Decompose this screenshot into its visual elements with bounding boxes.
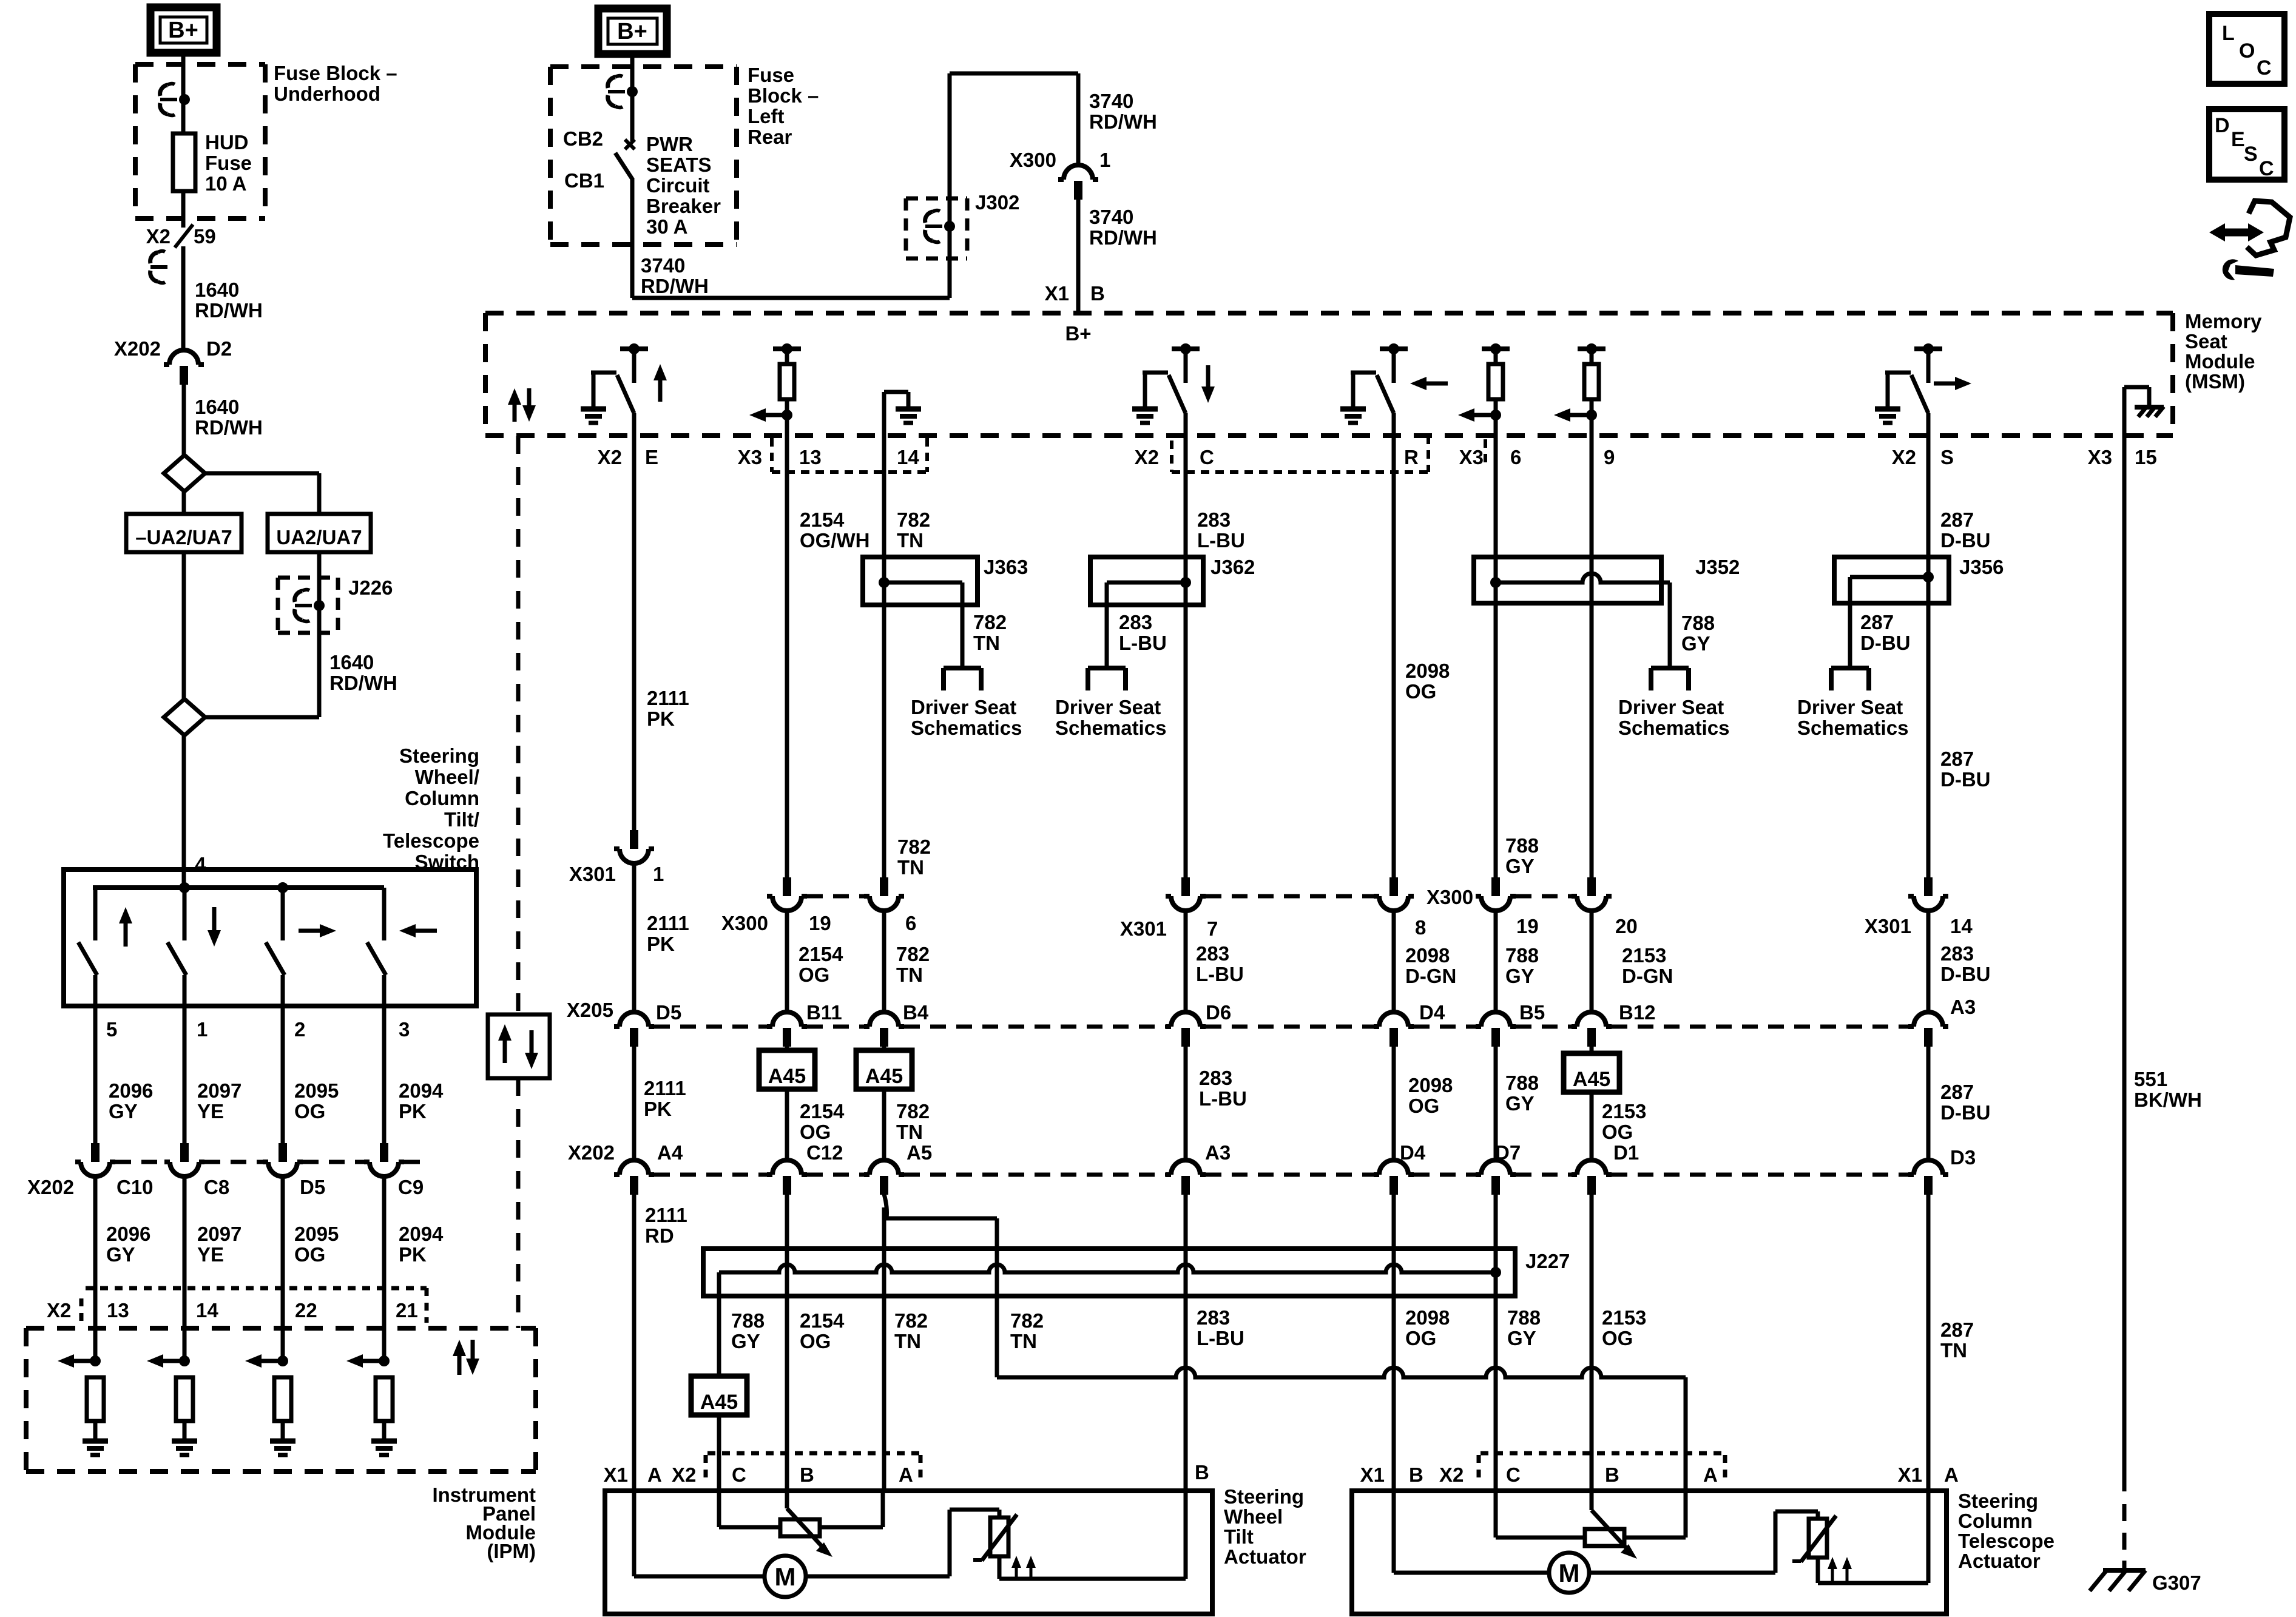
- svg-text:PK: PK: [399, 1243, 427, 1266]
- svg-text:YE: YE: [197, 1100, 224, 1122]
- wire 287 D-BU (pin S down): [1928, 436, 1990, 557]
- wire 2095 OG lower: [283, 1176, 339, 1361]
- wire 2098 OG (to X202): [1394, 1046, 1453, 1160]
- svg-text:TN: TN: [896, 964, 923, 986]
- svg-text:788: 788: [1505, 944, 1539, 967]
- svg-text:GY: GY: [106, 1243, 135, 1266]
- svg-text:(IPM): (IPM): [487, 1540, 536, 1562]
- svg-text:TN: TN: [1010, 1330, 1037, 1352]
- wire 2111 PK (X205 to X202): [634, 1046, 686, 1160]
- svg-text:PK: PK: [644, 1098, 672, 1120]
- svg-text:D-BU: D-BU: [1940, 768, 1990, 791]
- svg-text:A45: A45: [768, 1065, 806, 1088]
- svg-text:6: 6: [1510, 446, 1521, 468]
- connector X301 pin 14: [1865, 877, 1973, 937]
- wire 2154 OG (to actuator): [787, 1194, 845, 1491]
- fuse block underhood box: [135, 62, 397, 218]
- svg-text:X2: X2: [146, 225, 171, 248]
- wire 287 TN (to actuator): [1928, 1194, 1974, 1491]
- power symbol B+ (middle): [598, 8, 667, 54]
- svg-text:X300: X300: [1010, 149, 1056, 171]
- svg-text:D2: D2: [206, 337, 232, 360]
- svg-text:X1: X1: [1898, 1463, 1922, 1486]
- switch bus bar: [93, 882, 384, 893]
- svg-text:X2: X2: [47, 1299, 71, 1322]
- svg-text:782: 782: [897, 508, 930, 531]
- svg-text:2098: 2098: [1405, 944, 1450, 967]
- splice J352: [1474, 556, 1740, 668]
- switch left contact: [367, 888, 437, 1006]
- svg-text:X3: X3: [1459, 446, 1484, 468]
- svg-text:OG: OG: [294, 1243, 325, 1266]
- wire 788 GY (to X202): [1496, 1046, 1539, 1160]
- splice J227 internal bus: [719, 1264, 1496, 1296]
- fuse block left rear box: [550, 64, 819, 245]
- option box -UA2/UA7: [126, 514, 241, 552]
- connector X301 pin 7: [1120, 877, 1218, 940]
- svg-text:D5: D5: [300, 1176, 325, 1198]
- svg-text:2154: 2154: [800, 508, 845, 531]
- svg-text:PK: PK: [399, 1100, 427, 1122]
- svg-text:Circuit: Circuit: [646, 174, 710, 197]
- IPM ground 1: [83, 1441, 108, 1455]
- inline connector A45 (788 GY): [691, 1376, 747, 1415]
- tilt actuator pin labels: [604, 1453, 1209, 1486]
- svg-text:Block –: Block –: [748, 84, 819, 107]
- svg-text:283: 283: [1119, 611, 1152, 633]
- connector X300 pin 1: [1010, 149, 1110, 200]
- svg-text:D-BU: D-BU: [1940, 963, 1990, 985]
- MSM switch down (pin C): [1132, 343, 1215, 436]
- connector X300 pin 6: [864, 877, 916, 934]
- MSM updown arrows: [508, 388, 536, 422]
- svg-text:Breaker: Breaker: [646, 195, 721, 217]
- svg-text:OG: OG: [800, 1121, 831, 1143]
- svg-text:19: 19: [1516, 915, 1539, 937]
- svg-text:J302: J302: [975, 191, 1019, 214]
- svg-text:2153: 2153: [1622, 944, 1666, 967]
- svg-text:OG: OG: [1408, 1095, 1439, 1117]
- svg-text:Schematics: Schematics: [1797, 717, 1908, 739]
- svg-text:X205: X205: [567, 999, 613, 1021]
- svg-text:D5: D5: [656, 1001, 681, 1024]
- svg-text:CB1: CB1: [564, 169, 604, 192]
- tilt motor M: [634, 1491, 806, 1597]
- connector X2 row (IPM): [47, 1288, 427, 1326]
- svg-text:Tilt: Tilt: [1224, 1525, 1254, 1548]
- connector X301 pin 1: [569, 830, 664, 885]
- svg-text:2098: 2098: [1408, 1074, 1453, 1096]
- off-page fork J363 (782 TN): [944, 611, 1007, 690]
- svg-text:283: 283: [1940, 942, 1974, 965]
- wire to switch pin 4: [184, 735, 206, 888]
- svg-text:A: A: [1944, 1463, 1959, 1486]
- wire 2097 YE lower: [184, 1176, 241, 1361]
- svg-text:OG: OG: [799, 964, 829, 986]
- wire 2153 D-GN: [1592, 911, 1673, 1012]
- svg-text:A: A: [647, 1463, 662, 1486]
- svg-text:Wheel/: Wheel/: [415, 766, 479, 788]
- svg-text:L-BU: L-BU: [1199, 1087, 1247, 1110]
- dashed data wire to IPM: [516, 436, 521, 1328]
- MSM resistor (pin 9): [1554, 343, 1606, 436]
- svg-text:Memory: Memory: [2185, 310, 2262, 333]
- svg-text:1640: 1640: [195, 279, 239, 301]
- svg-text:C12: C12: [806, 1141, 843, 1164]
- svg-text:J352: J352: [1695, 556, 1740, 578]
- off-page fork J362 (283 L-BU): [1088, 611, 1167, 690]
- driver seat schematics label 1: [911, 696, 1022, 739]
- wire 3740 RD/WH to X300: [1078, 73, 1157, 165]
- svg-text:788: 788: [1507, 1306, 1541, 1329]
- svg-text:A3: A3: [1205, 1141, 1231, 1164]
- svg-text:BK/WH: BK/WH: [2134, 1089, 2202, 1111]
- instrument panel module box: [26, 1328, 536, 1562]
- connector row X300 dashes: [807, 894, 1572, 899]
- svg-text:782: 782: [894, 1309, 928, 1332]
- power symbol B+ (left): [150, 7, 217, 53]
- wire 2094 PK lower: [384, 1176, 444, 1361]
- MSM resistor (pin 6): [1458, 343, 1510, 436]
- splice J226: [278, 576, 393, 633]
- MSM pin X3 15: [2088, 446, 2157, 468]
- svg-text:1: 1: [197, 1018, 208, 1041]
- svg-text:S: S: [2244, 143, 2258, 166]
- svg-text:X1: X1: [604, 1463, 628, 1486]
- wire 287 D-BU (to X301): [1928, 603, 1990, 878]
- svg-text:GY: GY: [1681, 632, 1710, 655]
- svg-text:D: D: [2215, 114, 2230, 137]
- svg-text:X1: X1: [1045, 282, 1069, 305]
- svg-text:D-GN: D-GN: [1622, 965, 1673, 987]
- svg-text:2154: 2154: [800, 1100, 845, 1122]
- svg-text:782: 782: [897, 836, 931, 858]
- svg-text:OG: OG: [1405, 680, 1436, 703]
- icon LOC box: [2209, 14, 2284, 84]
- svg-text:2095: 2095: [294, 1079, 339, 1102]
- driver seat schematics label 2: [1055, 696, 1166, 739]
- svg-text:OG: OG: [1602, 1327, 1633, 1349]
- svg-text:13: 13: [799, 446, 822, 468]
- svg-text:Left: Left: [748, 105, 785, 127]
- svg-text:7: 7: [1207, 917, 1218, 940]
- wire 1640 RD/WH seg3: [329, 651, 397, 694]
- svg-text:4: 4: [195, 853, 206, 876]
- wire 2153 OG (pin 9 down): [1590, 436, 1594, 878]
- svg-text:5: 5: [106, 1018, 117, 1041]
- svg-text:3740: 3740: [1089, 206, 1133, 228]
- svg-text:GY: GY: [1505, 855, 1535, 877]
- wire 2153 OG (to actuator): [1592, 1194, 1646, 1491]
- icon DESC box: [2209, 109, 2284, 180]
- svg-text:J227: J227: [1525, 1250, 1570, 1272]
- svg-text:A: A: [899, 1463, 913, 1486]
- wire 283 D-BU label: [1928, 911, 1990, 1012]
- svg-text:GY: GY: [731, 1330, 760, 1352]
- svg-text:HUD: HUD: [205, 131, 249, 154]
- svg-text:14: 14: [1950, 915, 1973, 937]
- svg-text:RD/WH: RD/WH: [195, 299, 263, 322]
- svg-text:Fuse Block –: Fuse Block –: [274, 62, 397, 84]
- svg-text:YE: YE: [197, 1243, 224, 1266]
- inline connector A45 (wire 14): [856, 1046, 912, 1089]
- wire 283 L-BU (to X202): [1186, 1046, 1247, 1160]
- svg-text:G307: G307: [2152, 1571, 2201, 1594]
- svg-text:14: 14: [196, 1299, 218, 1322]
- svg-text:D-BU: D-BU: [1940, 529, 1990, 552]
- svg-text:283: 283: [1196, 942, 1229, 965]
- wire 283 L-BU (to X205): [1184, 911, 1188, 1012]
- svg-text:B: B: [1409, 1463, 1423, 1486]
- wire 788 GY (J227 branch): [719, 1296, 765, 1376]
- connector X2 pin 59: [146, 224, 216, 283]
- driver seat schematics label 3: [1618, 696, 1729, 739]
- svg-text:3: 3: [399, 1018, 410, 1041]
- wire UA2 down: [205, 552, 319, 717]
- svg-text:C10: C10: [116, 1176, 154, 1198]
- svg-text:287: 287: [1940, 748, 1974, 770]
- svg-text:788: 788: [731, 1309, 765, 1332]
- svg-text:2098: 2098: [1405, 660, 1450, 682]
- svg-text:Steering: Steering: [1958, 1490, 2038, 1512]
- svg-text:RD/WH: RD/WH: [329, 672, 397, 694]
- wire 2094 PK upper: [384, 1006, 444, 1143]
- wire 2097 YE upper: [184, 1006, 241, 1143]
- wire 2111 PK (X301 to X205): [634, 863, 689, 1012]
- MSM pin X2 C: [1135, 446, 1214, 468]
- svg-text:X1: X1: [1360, 1463, 1385, 1486]
- svg-text:L-BU: L-BU: [1197, 529, 1245, 552]
- svg-text:GY: GY: [109, 1100, 138, 1122]
- svg-text:Tilt/: Tilt/: [444, 808, 479, 831]
- tilt position pot: [719, 1491, 883, 1536]
- wire 283 L-BU (to actuator): [1186, 1194, 1244, 1491]
- switch right contact: [266, 888, 336, 1006]
- svg-text:TN: TN: [1940, 1339, 1967, 1362]
- svg-text:Fuse: Fuse: [205, 152, 252, 174]
- svg-text:A4: A4: [657, 1141, 683, 1164]
- svg-text:782: 782: [1010, 1309, 1044, 1332]
- wire 2095 OG upper: [283, 1006, 339, 1143]
- svg-text:TN: TN: [896, 1121, 923, 1143]
- svg-text:283: 283: [1197, 508, 1231, 531]
- MSM switch right (pin S): [1875, 343, 1971, 436]
- IPM ground 4: [371, 1441, 397, 1455]
- svg-text:Steering: Steering: [1224, 1485, 1304, 1508]
- connector drop box pins C-R: [1172, 436, 1485, 472]
- svg-text:X2: X2: [672, 1463, 696, 1486]
- svg-text:OG: OG: [294, 1100, 325, 1122]
- splice diamond upper: [164, 455, 205, 491]
- svg-text:C: C: [1200, 446, 1214, 468]
- connector row X205: [567, 996, 1976, 1047]
- MSM switch left (pin R): [1340, 343, 1448, 436]
- wire 782 TN (J363 to X300): [884, 605, 931, 879]
- svg-text:B+: B+: [168, 18, 198, 43]
- svg-text:A45: A45: [700, 1391, 738, 1414]
- connector terminal in fuse block: [160, 84, 190, 116]
- svg-text:2094: 2094: [399, 1079, 444, 1102]
- wire 782 TN (to X205): [884, 911, 930, 1012]
- svg-text:X2: X2: [1135, 446, 1159, 468]
- svg-text:1: 1: [653, 863, 664, 885]
- MSM pin R: [1404, 446, 1419, 468]
- svg-text:L-BU: L-BU: [1196, 963, 1244, 985]
- connector X202 row (switch): [27, 1143, 425, 1198]
- MSM pin X2 S: [1892, 446, 1954, 468]
- svg-text:6: 6: [905, 912, 916, 934]
- svg-text:M: M: [775, 1562, 796, 1591]
- switch down contact: [167, 888, 221, 1006]
- steering column telescope actuator box: [1352, 1490, 2055, 1614]
- svg-text:287: 287: [1940, 508, 1974, 531]
- IPM ground 3: [270, 1441, 295, 1455]
- wire 2096 GY upper: [95, 1006, 153, 1143]
- svg-text:Seat: Seat: [2185, 330, 2227, 353]
- svg-text:Telescope: Telescope: [383, 829, 479, 852]
- svg-text:(MSM): (MSM): [2185, 370, 2245, 393]
- wire 2096 GY lower: [95, 1176, 150, 1361]
- svg-text:C9: C9: [398, 1176, 424, 1198]
- connector X300 pin 8: [1374, 877, 1473, 939]
- wire 788 GY (to X205): [1496, 911, 1539, 1012]
- wire 2098 D-GN: [1394, 911, 1456, 1012]
- svg-text:782: 782: [896, 943, 930, 965]
- svg-text:R: R: [1404, 446, 1419, 468]
- svg-text:J356: J356: [1959, 556, 2004, 578]
- svg-text:PWR: PWR: [646, 133, 693, 155]
- svg-text:X202: X202: [568, 1141, 615, 1164]
- svg-text:782: 782: [896, 1100, 930, 1122]
- splice J362: [1090, 556, 1255, 668]
- svg-text:X3: X3: [738, 446, 762, 468]
- telescope thermistor circuit: [1589, 1491, 1928, 1583]
- svg-text:A3: A3: [1950, 996, 1976, 1018]
- MSM pin X3 6: [1459, 446, 1522, 468]
- svg-text:20: 20: [1615, 915, 1638, 937]
- wire 788 GY to tilt actuator: [717, 1415, 721, 1491]
- svg-text:C: C: [2257, 56, 2272, 79]
- svg-text:Steering: Steering: [399, 744, 479, 767]
- switch up contact: [78, 888, 132, 1006]
- svg-text:RD/WH: RD/WH: [1089, 226, 1157, 249]
- svg-text:D7: D7: [1495, 1141, 1521, 1164]
- svg-text:Column: Column: [405, 787, 479, 809]
- tilt thermistor circuit: [806, 1491, 1186, 1580]
- wire 2098 OG (pin R down): [1394, 436, 1450, 878]
- svg-text:X301: X301: [569, 863, 616, 885]
- svg-text:Wheel: Wheel: [1224, 1505, 1283, 1528]
- off-page fork J352 (788 GY): [1651, 612, 1715, 690]
- MSM pin X2 E: [598, 446, 658, 468]
- svg-text:A45: A45: [1573, 1068, 1610, 1091]
- svg-text:Driver Seat: Driver Seat: [911, 696, 1016, 718]
- svg-text:RD: RD: [645, 1224, 674, 1247]
- wire B+ to HUD fuse: [181, 53, 186, 133]
- off-page fork J356 (287 D-BU): [1831, 611, 1910, 690]
- svg-text:Module: Module: [2185, 350, 2255, 373]
- svg-text:B+: B+: [617, 19, 647, 44]
- circuit breaker PWR SEATS 30A: [564, 133, 721, 238]
- wire 1640 RD/WH seg2: [184, 384, 263, 455]
- svg-text:Driver Seat: Driver Seat: [1797, 696, 1903, 718]
- svg-text:1640: 1640: [195, 396, 239, 418]
- MSM chassis ground (pin 15): [2124, 387, 2164, 436]
- svg-text:Schematics: Schematics: [911, 717, 1022, 739]
- wire B+ into fuse block left rear: [630, 54, 635, 141]
- wire 283 L-BU (J362 to X301): [1186, 605, 1244, 985]
- svg-text:2153: 2153: [1602, 1100, 1646, 1122]
- svg-text:Column: Column: [1958, 1510, 2033, 1532]
- steering wheel switch label: [383, 744, 479, 873]
- svg-text:X300: X300: [721, 912, 768, 934]
- switch pin labels: [106, 1018, 410, 1041]
- wire 2098 OG (to actuator): [1394, 1194, 1450, 1491]
- svg-text:D-BU: D-BU: [1860, 632, 1910, 654]
- svg-text:X301: X301: [1120, 917, 1167, 940]
- svg-text:TN: TN: [973, 632, 1000, 654]
- connector X300 pin 20: [1572, 877, 1638, 937]
- svg-text:9: 9: [1604, 446, 1615, 468]
- svg-text:B5: B5: [1519, 1001, 1545, 1024]
- svg-text:782: 782: [973, 611, 1007, 633]
- svg-text:D4: D4: [1400, 1141, 1426, 1164]
- memory seat module box: [485, 310, 2262, 436]
- svg-text:CB2: CB2: [563, 127, 603, 150]
- wire 2153 OG (to X202): [1592, 1092, 1646, 1160]
- svg-text:283: 283: [1199, 1067, 1232, 1089]
- telescope actuator pin labels: [1360, 1453, 1959, 1486]
- wire -UA2 down: [182, 491, 186, 699]
- svg-text:B: B: [1605, 1463, 1619, 1486]
- svg-text:2096: 2096: [109, 1079, 153, 1102]
- IPM input resistor 2: [147, 1354, 193, 1439]
- icon service arrow: [2209, 201, 2290, 280]
- svg-text:2111: 2111: [647, 687, 689, 709]
- svg-text:GY: GY: [1505, 965, 1535, 987]
- svg-text:Actuator: Actuator: [1958, 1550, 2041, 1572]
- IPM input resistor 1: [58, 1354, 104, 1439]
- wire 3740 RD/WH to MSM: [1045, 199, 1157, 313]
- svg-text:RD/WH: RD/WH: [195, 416, 263, 439]
- svg-text:TN: TN: [897, 856, 924, 879]
- wire 782 TN (to X202): [884, 1089, 930, 1160]
- MSM switch up (pin E): [581, 343, 667, 436]
- svg-text:Telescope: Telescope: [1958, 1530, 2055, 1552]
- svg-text:2: 2: [294, 1018, 305, 1041]
- MSM pin 14: [897, 446, 919, 468]
- svg-text:C: C: [2259, 157, 2274, 180]
- svg-text:8: 8: [1415, 916, 1426, 939]
- connector X202 pin D2: [114, 337, 232, 385]
- wire 782 TN (pin 14 down): [884, 436, 930, 557]
- steering wheel switch box: [64, 869, 476, 1006]
- MSM ground (pin 14): [884, 392, 921, 436]
- connector row X202: [568, 1141, 1976, 1195]
- svg-text:788: 788: [1681, 612, 1715, 634]
- svg-text:2111: 2111: [647, 912, 689, 934]
- wire 2111 RD: [634, 1194, 687, 1491]
- wire 2154 OG (to X205): [787, 911, 843, 1012]
- svg-text:E: E: [2231, 128, 2245, 151]
- svg-text:B11: B11: [806, 1001, 842, 1024]
- wire 782 TN (cross to telescope): [997, 1368, 1686, 1491]
- telescope pot wiper: [1592, 1491, 1637, 1559]
- svg-text:TN: TN: [894, 1330, 921, 1352]
- wire 283 L-BU (pin C down): [1186, 436, 1245, 557]
- splice J356: [1834, 556, 2004, 668]
- svg-text:X3: X3: [2088, 446, 2112, 468]
